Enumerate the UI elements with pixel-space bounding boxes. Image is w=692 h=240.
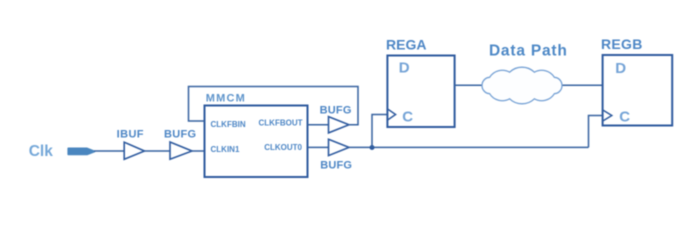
- svg-text:Data Path: Data Path: [489, 42, 568, 59]
- svg-text:D: D: [615, 60, 626, 77]
- input port arrow: [68, 148, 94, 154]
- svg-text:C: C: [402, 108, 413, 125]
- buffer IBUF: [124, 142, 144, 159]
- wire clock net horizontal: [349, 146, 589, 148]
- svg-text:REGA: REGA: [386, 37, 426, 53]
- wire CLKOUT0 to output BUFG: [308, 146, 329, 148]
- cloud Data Path: [482, 67, 562, 104]
- wire IBUF to BUFG: [145, 150, 171, 152]
- svg-text:IBUF: IBUF: [117, 128, 144, 140]
- wire Clk to IBUF: [94, 150, 125, 152]
- svg-text:Clk: Clk: [29, 143, 54, 160]
- wire BUFG to MMCM CLKIN1: [192, 150, 205, 152]
- junction dot: [370, 145, 375, 150]
- svg-text:C: C: [619, 109, 630, 126]
- svg-text:CLKFBOUT: CLKFBOUT: [259, 119, 303, 128]
- register REGB: [603, 55, 673, 126]
- wire branch to REGB C: [589, 116, 603, 148]
- svg-text:BUFG: BUFG: [164, 128, 196, 140]
- svg-text:D: D: [399, 60, 410, 77]
- buffer BUFG input: [170, 142, 192, 159]
- svg-text:REGB: REGB: [601, 36, 643, 52]
- svg-text:CLKIN1: CLKIN1: [211, 145, 240, 154]
- svg-text:BUFG: BUFG: [320, 104, 352, 116]
- wire CLKFBOUT to feedback BUFG: [308, 124, 329, 126]
- register REGA: [387, 56, 454, 128]
- buffer BUFG output: [329, 139, 350, 155]
- svg-text:MMCM: MMCM: [206, 92, 246, 104]
- wire feedback loop to CLKFBIN: [189, 87, 359, 125]
- wire REGA to cloud: [455, 84, 482, 86]
- svg-text:CLKOUT0: CLKOUT0: [264, 143, 302, 152]
- block MMCM: [205, 106, 308, 178]
- wire branch to REGA C: [372, 115, 387, 148]
- clock chevron REGA: [387, 109, 395, 120]
- buffer BUFG feedback: [329, 117, 350, 133]
- wire cloud to REGB: [562, 84, 603, 86]
- clock chevron REGB: [603, 110, 612, 121]
- svg-text:BUFG: BUFG: [320, 159, 352, 171]
- svg-text:CLKFBIN: CLKFBIN: [211, 120, 246, 129]
